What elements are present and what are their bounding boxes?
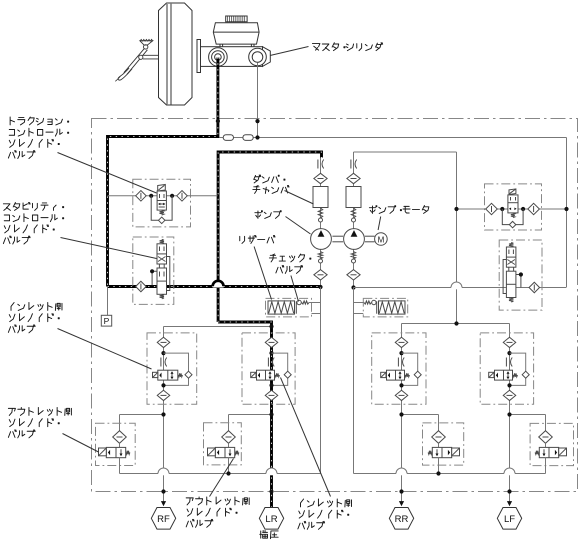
filter diamond right (177, 191, 188, 202)
outlet solenoid valve group box (204, 423, 242, 465)
pump motor M (375, 233, 388, 246)
wire: right reservoir riser (353, 288, 355, 474)
orifice (317, 160, 319, 169)
wire: RF outlet tap (120, 414, 164, 416)
filter diamond (432, 431, 446, 444)
leader inlet left (58, 329, 152, 370)
check ball lower (318, 252, 322, 260)
spring (513, 373, 518, 377)
thick line: lower horizontal to pump suction (108, 285, 321, 288)
wheel cylinder port RF hexagon (151, 508, 175, 530)
filter diamond bottom (265, 390, 278, 400)
inlet solenoid valve group box (147, 333, 197, 404)
arrow to RF (161, 501, 166, 506)
wire: LR outlet tap (229, 414, 272, 416)
wire: RR outlet tap (402, 414, 439, 416)
junction dot (269, 351, 273, 355)
leader outlet left (63, 434, 99, 453)
filter diamond bottom (157, 390, 170, 400)
valve body (432, 447, 451, 457)
wheel cylinder port LR hexagon (259, 508, 283, 530)
bypass check diamond (284, 371, 291, 378)
junction dot (255, 135, 259, 139)
solenoid (381, 372, 386, 377)
inlet solenoid valve group box (242, 333, 295, 404)
junction dot (507, 383, 511, 387)
filter diamond on thick line (136, 281, 147, 292)
pump suction/discharge column wire (353, 158, 355, 288)
svg-text:LR: LR (265, 514, 277, 525)
junction dot (399, 351, 403, 355)
check valve diamond bottom (314, 270, 327, 280)
valve body (215, 447, 234, 457)
label: inlet side solenoid valve left (11, 303, 14, 311)
svg-text:M: M (378, 235, 385, 244)
junction dot at outline crossing (216, 119, 220, 123)
orifice (267, 358, 269, 367)
outlet solenoid valve group box (96, 423, 136, 465)
spring (275, 373, 280, 377)
filter diamond top (503, 337, 516, 347)
wire: right inlet supply (402, 323, 510, 325)
wire: right lower horizontal (354, 287, 567, 289)
brake pedal (115, 39, 158, 81)
spring (126, 451, 130, 455)
damper chamber (313, 187, 328, 208)
bypass loop (272, 353, 288, 385)
svg-text:P: P (104, 316, 110, 326)
pipe fitting 2 (243, 135, 253, 141)
filter diamond left (136, 191, 147, 202)
spring (235, 451, 239, 455)
outlet solenoid valve group box (530, 423, 573, 465)
port dot LR (269, 489, 273, 493)
wire: front circuit horizontal (220, 137, 567, 139)
spring (428, 451, 432, 455)
stability valve lower body (157, 268, 167, 294)
master cylinder secondary port (249, 48, 267, 66)
drain wire (438, 458, 440, 474)
traction valve spring (160, 210, 164, 215)
solenoid (509, 189, 516, 195)
filter diamond bottom (503, 390, 516, 400)
filter diamond bottom (395, 390, 408, 400)
filter diamond top (265, 337, 278, 347)
lower body (506, 271, 516, 297)
valve body (106, 447, 125, 457)
solenoid (559, 448, 567, 456)
traction control solenoid valve group box (133, 179, 191, 227)
junction dots (500, 207, 504, 211)
bypass loop (510, 353, 526, 385)
check ball (319, 218, 323, 222)
wire: LF outlet tap (510, 414, 546, 416)
leader pump (286, 217, 311, 235)
thick line: pump discharge top (218, 152, 321, 322)
stability valve bypass right (167, 257, 170, 291)
label: inlet side solenoid valve bottom (301, 499, 304, 507)
wire diamond to valve (228, 443, 230, 447)
master cylinder primary port (209, 48, 228, 67)
wire: left inlet supply (164, 326, 272, 328)
master cylinder reservoir (213, 23, 259, 44)
wire: right feed down (566, 138, 568, 288)
label: damper chamber (254, 175, 261, 183)
leader stability (61, 238, 157, 259)
svg-text:RF: RF (157, 514, 170, 525)
solenoid (452, 448, 460, 456)
orifice spring (318, 208, 322, 218)
orifice (350, 160, 352, 169)
traction valve body (157, 191, 166, 210)
port dot LF (507, 489, 511, 493)
damper chamber (346, 187, 361, 208)
bypass check diamond (414, 371, 421, 378)
solenoid (489, 372, 494, 377)
leader reservoir (254, 247, 271, 300)
wire to pressure port (107, 287, 109, 316)
valve body (539, 447, 558, 457)
bypass check diamond (522, 371, 529, 378)
check ball (352, 218, 356, 222)
filter diamond top (157, 337, 170, 347)
solenoid (99, 448, 107, 456)
valve body (257, 370, 275, 380)
crossover bump on thick horizontal (213, 283, 224, 287)
wire diamond to valve (438, 443, 440, 447)
filter diamond (539, 431, 553, 444)
spring (178, 373, 182, 377)
pump circle (344, 229, 365, 250)
check ball lower (351, 252, 355, 260)
connector (508, 267, 510, 271)
stability valve connector (158, 264, 160, 268)
label: check valve (269, 254, 276, 262)
return rail right (354, 473, 546, 475)
spring bottom (509, 298, 513, 303)
solenoid (208, 448, 216, 456)
junction dots (149, 194, 153, 198)
label: traction control solenoid valve (10, 117, 14, 125)
junction dot (269, 383, 273, 387)
junction dot pump suction left (318, 285, 322, 289)
wire through right traction valve (457, 208, 567, 210)
check valve diamond bottom (347, 270, 360, 280)
bypass check line (151, 196, 172, 221)
junction dot at outline crossing (255, 119, 259, 123)
reservoir left (266, 298, 312, 317)
label: outlet side solenoid valve bottom (186, 498, 193, 505)
return rail left (120, 473, 321, 475)
wire: LF wheel column (509, 324, 511, 506)
inlet solenoid valve group box (480, 333, 533, 404)
bypass check diamond (509, 221, 515, 228)
stability control solenoid valve group box right (499, 240, 542, 310)
solenoid (251, 372, 256, 377)
filter diamond (113, 431, 127, 444)
spring (535, 451, 539, 455)
orifice (160, 358, 162, 367)
bypass loop (402, 353, 418, 385)
hydraulic actuator dash-dot outline (92, 119, 578, 492)
spring (405, 373, 410, 377)
bypass check valve diamond (158, 217, 165, 224)
bypass left (503, 260, 506, 294)
thick line: to LR wheel (218, 322, 271, 508)
junction dot pump suction right (351, 285, 355, 289)
leader traction (58, 153, 157, 194)
traction control solenoid valve group box right (485, 184, 542, 230)
valve body (508, 195, 518, 213)
stability valve tap left (152, 271, 157, 285)
orifice (505, 358, 507, 367)
check valve diamond top (347, 173, 360, 183)
wire: RR wheel column (401, 324, 403, 506)
label: master cylinder (312, 44, 319, 51)
svg-text:RR: RR (395, 514, 409, 525)
master cylinder body (197, 40, 201, 73)
inlet solenoid valve group box (372, 333, 426, 404)
leader outlet bottom (210, 459, 234, 497)
label: outlet side solenoid valve left (8, 408, 15, 415)
wire: left reservoir riser (320, 287, 322, 474)
drain wire (545, 458, 547, 474)
filter diamond top (395, 337, 408, 347)
upper body (506, 247, 516, 267)
thick line: primary port down (108, 58, 218, 287)
stability control solenoid valve group box (133, 237, 174, 304)
junction dot at right feed (564, 207, 568, 211)
bypass line (502, 209, 523, 225)
filter diamond right (528, 203, 540, 214)
filter diamond left (486, 203, 498, 214)
port dot RR (399, 489, 403, 493)
port dot RF (161, 489, 165, 493)
tap right (516, 275, 521, 288)
bypass check diamond (185, 371, 192, 378)
valve body (387, 370, 405, 380)
traction valve solenoid (158, 185, 166, 192)
label: pressure increase (260, 530, 268, 538)
wheel cylinder port RR hexagon (389, 508, 413, 530)
leader pump motor (378, 217, 381, 231)
junction dot (161, 351, 165, 355)
wire: RF wheel column (163, 327, 165, 506)
stability valve upper body (157, 244, 167, 264)
pump circle (311, 229, 332, 250)
label: reservoir (240, 236, 245, 243)
spring (511, 213, 515, 218)
arrow to RR (399, 501, 404, 506)
outlet solenoid valve group box (423, 423, 464, 465)
solenoid (153, 372, 158, 377)
pressure sensor port P (101, 315, 111, 326)
master cylinder reservoir filler cap (226, 16, 247, 22)
reservoir right (363, 298, 407, 317)
filter diamond (222, 431, 236, 444)
wire: right column top to traction feed (354, 151, 457, 153)
leader check valve (291, 276, 299, 302)
wire diamond to valve (119, 443, 121, 447)
stability valve spring bottom (160, 294, 164, 299)
leader inlet bottom (281, 378, 331, 497)
wire through traction valve (108, 195, 218, 197)
junction dot right supply (454, 321, 458, 325)
wire: secondary port down (257, 63, 259, 138)
drain wire (228, 458, 230, 474)
leader damper chamber (285, 191, 314, 205)
orifice (397, 358, 399, 367)
wire diamond to valve (545, 443, 547, 447)
stability valve spring top (160, 239, 164, 244)
valve body (495, 370, 513, 380)
check valve diamond top (314, 173, 327, 183)
filter diamond on line (529, 282, 540, 293)
label: pump motor (369, 206, 376, 214)
pump suction/discharge column wire (320, 158, 322, 288)
junction dot (161, 383, 165, 387)
pipe fitting 1 (223, 135, 233, 141)
spring top (509, 243, 513, 248)
arrow to LF (507, 501, 512, 506)
orifice spring (351, 208, 355, 218)
wheel cylinder port LF hexagon (497, 508, 521, 530)
junction dot (507, 351, 511, 355)
bypass loop (164, 353, 189, 385)
svg-text:LF: LF (504, 514, 515, 525)
junction dot (399, 383, 403, 387)
pump drive shafts (332, 235, 343, 237)
vacuum brake booster (159, 3, 193, 105)
label: stability control solenoid valve (3, 204, 10, 211)
valve body (158, 370, 178, 380)
leader to master cylinder label (270, 47, 309, 56)
drain wire (119, 458, 121, 474)
label: pump (255, 211, 262, 219)
